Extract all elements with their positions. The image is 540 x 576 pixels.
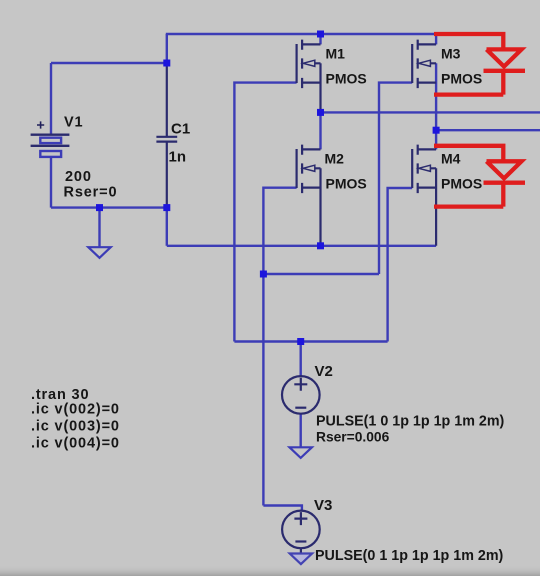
ground [290,447,312,458]
wire M1 gate [234,83,296,342]
transistor M1 [297,40,321,112]
svg-text:M2: M2 [325,151,345,167]
svg-text:1n: 1n [169,149,187,166]
node M2 drain [317,242,324,249]
transistor M2 [297,145,321,246]
ground [88,247,110,258]
diode D1 [434,34,525,95]
diode D2 [434,146,525,207]
wire M1 drain to M2 source [319,112,321,149]
wire out B [436,129,540,131]
svg-text:M4: M4 [441,151,461,167]
svg-text:.ic v(003)=0: .ic v(003)=0 [31,419,120,435]
wire V2 net [234,340,387,342]
capacitor C1 [156,63,177,208]
voltage source V1 [31,121,70,156]
svg-text:PULSE(1 0 1p 1p 1p 1m 2m): PULSE(1 0 1p 1p 1p 1m 2m) [316,414,505,430]
svg-text:PMOS: PMOS [441,176,482,192]
svg-text:PMOS: PMOS [326,71,367,87]
wire V1 top lead [50,63,52,135]
svg-text:V3: V3 [314,497,332,514]
node C1 bottom [163,204,170,211]
svg-text:.ic v(002)=0: .ic v(002)=0 [31,402,120,418]
svg-text:PMOS: PMOS [326,176,367,192]
svg-text:PULSE(0 1 1p 1p 1p 1m 2m): PULSE(0 1 1p 1p 1p 1m 2m) [315,548,504,564]
node V1 C1 top [163,60,170,67]
directive text [31,387,120,452]
voltage source V2 [282,376,320,414]
wire V2 top lead [300,342,302,377]
wire C1 column up to top rail [166,34,168,63]
node M1 source [317,31,324,38]
svg-text:V2: V2 [315,363,333,380]
wire M4 gate column [388,188,413,342]
node M1 drain [317,109,324,116]
svg-text:M1: M1 [326,46,346,62]
wire ground tap [98,208,100,247]
svg-text:C1: C1 [171,121,190,138]
svg-text:Rser=0.006: Rser=0.006 [316,430,390,445]
wire to V3 [263,506,302,512]
wire M2 gate [263,188,296,506]
wire top rail [166,33,436,35]
wire V1 plus to node [51,62,168,64]
wire M2 gate to M3 gate [263,273,379,275]
svg-text:Rser=0: Rser=0 [64,185,118,201]
wire V1 bottom lead [50,157,52,208]
wire C1 down to gnd rail [166,208,168,246]
node ground tap [96,204,103,211]
node M2 gate junction [260,271,267,278]
svg-text:V1: V1 [64,114,83,130]
transistor M4 [412,145,436,246]
svg-text:M3: M3 [441,46,461,62]
svg-text:PMOS: PMOS [441,71,482,87]
wire out A [321,111,540,113]
wire gnd rail [167,245,436,247]
svg-text:.ic v(004)=0: .ic v(004)=0 [31,436,120,452]
svg-text:200: 200 [65,169,92,185]
node M3 drain [433,127,440,134]
wire bottom rail V1 to C1 [51,206,168,208]
ground [290,554,312,565]
wire V2 bottom lead [300,414,302,447]
wire M1 source stub [319,34,321,44]
transistor M3 [412,40,436,89]
voltage source V3 [282,511,320,554]
wire M3 source stub [435,34,437,44]
wire M3 drain to M4 source [435,63,437,149]
wire M3 gate column [379,83,412,274]
node V2 top [297,338,304,345]
